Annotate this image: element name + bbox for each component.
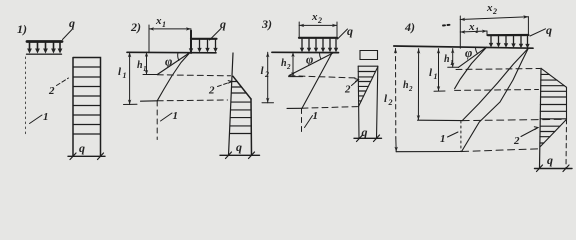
angle phi label	[465, 46, 472, 60]
svg-text:x: x	[311, 11, 318, 23]
label q at diagram bottom	[236, 140, 242, 154]
dashed level line at l1 depth	[455, 89, 539, 92]
distributed load q	[299, 37, 337, 39]
diagram hatching	[230, 82, 251, 134]
svg-text:2: 2	[48, 85, 55, 97]
angle phi label	[306, 53, 313, 67]
phi line from load near edge	[458, 47, 486, 67]
dimension h2	[281, 58, 291, 71]
45 deg line from load near edge	[455, 47, 487, 88]
dimension x2	[311, 11, 322, 25]
label 1 with leader	[440, 133, 446, 145]
phi line from load far edge	[462, 48, 528, 120]
dimension l1	[429, 67, 438, 81]
level line at l2 depth (solid then dashed)	[396, 151, 461, 153]
dashed level line at h1 depth	[157, 75, 230, 76]
label 2)	[130, 20, 141, 34]
dimension x1	[468, 21, 479, 35]
svg-text:1: 1	[434, 72, 438, 81]
dimension l2	[261, 65, 270, 79]
level line at h2 depth (solid then dashed)	[418, 119, 463, 121]
svg-text:2: 2	[264, 70, 269, 79]
svg-text:q: q	[347, 24, 353, 38]
label q with leader	[546, 23, 552, 37]
svg-text:1: 1	[475, 26, 479, 35]
small top box of pressure diagram	[360, 51, 378, 60]
label 2 with dashed leader	[48, 85, 55, 97]
diagram base line with ticks	[68, 155, 105, 157]
distributed load q (bar with down arrows)	[27, 40, 62, 43]
dashed level line at h2 depth	[289, 76, 358, 78]
label 2 with dashed leader	[208, 85, 215, 97]
diagram axis (left edge)	[357, 66, 360, 138]
distributed load q	[488, 34, 528, 36]
label 2 with leader	[513, 135, 520, 147]
ground line	[272, 51, 339, 53]
dashed level line at h1 depth	[456, 69, 540, 70]
label 1 with leader	[173, 110, 179, 122]
label q at diagram bottom	[79, 141, 85, 155]
pressure diagram axis	[229, 53, 234, 155]
label 1 with leader	[313, 110, 319, 122]
distributed load q	[190, 31, 192, 54]
dashed wall line below junction	[301, 109, 303, 133]
label 2 with leader	[344, 84, 351, 96]
phi line from load edge	[157, 53, 190, 75]
angle arc	[476, 47, 478, 53]
angle phi label	[165, 55, 172, 69]
level line at l1 depth (solid then dashed)	[141, 100, 158, 102]
phi line from load far edge	[289, 53, 333, 76]
svg-text:2: 2	[492, 7, 497, 16]
diagram top slant	[541, 68, 567, 87]
svg-text:x: x	[155, 15, 162, 27]
diagram right edge solid part	[566, 87, 568, 119]
svg-text:x: x	[486, 2, 493, 14]
diagram slant edge	[233, 76, 251, 99]
ground line	[127, 51, 216, 54]
label q at diagram bottom	[547, 153, 553, 167]
svg-text:q: q	[236, 140, 242, 154]
svg-text:1: 1	[123, 71, 127, 80]
svg-text:1: 1	[440, 133, 446, 145]
dashed wall line below junction	[156, 101, 158, 140]
svg-text:q: q	[79, 141, 85, 155]
diagram hatching	[540, 74, 567, 143]
dotted wall line below junction	[460, 121, 462, 151]
svg-text:1: 1	[173, 110, 179, 122]
baseline under load	[27, 53, 62, 55]
diagram base line with ticks	[220, 154, 260, 156]
diagram hatching	[358, 72, 375, 101]
svg-text:2: 2	[408, 85, 413, 93]
paper background	[0, 0, 576, 177]
diagram right edge	[377, 66, 378, 138]
label q with leader	[347, 24, 353, 38]
svg-text:q: q	[362, 125, 368, 139]
level line at lower depth (solid then dashed)	[287, 107, 302, 109]
svg-text:3): 3)	[261, 17, 272, 31]
diagram lower slant	[540, 119, 567, 146]
dimension l1	[118, 66, 127, 80]
dimension h1	[444, 54, 454, 67]
label q at diagram bottom	[362, 125, 368, 139]
svg-text:q: q	[546, 23, 552, 37]
dimension h2	[403, 80, 413, 93]
label 4)	[404, 20, 415, 34]
svg-text:4): 4)	[404, 20, 415, 34]
svg-text:1: 1	[43, 111, 49, 123]
dimension x1	[155, 15, 166, 29]
pressure diagram axis	[540, 68, 542, 168]
label q with leader	[69, 16, 75, 30]
dimension x2	[486, 2, 497, 16]
svg-text:2: 2	[286, 63, 291, 71]
label 1)	[17, 22, 27, 36]
svg-text:2: 2	[344, 84, 351, 96]
svg-text:2): 2)	[130, 20, 141, 34]
steep line from load far edge	[302, 53, 332, 108]
hatch lines	[73, 67, 101, 134]
45 deg line from load edge	[157, 53, 190, 101]
label 1 with leader	[43, 111, 49, 123]
diagram right edge dashed part	[565, 119, 568, 168]
diagram base line with ticks	[535, 168, 573, 170]
svg-text:q: q	[69, 16, 75, 30]
pressure diagram (triangle) top edge	[358, 65, 378, 67]
dimension h1	[137, 60, 147, 73]
label 3)	[261, 17, 272, 31]
svg-text:1): 1)	[17, 22, 27, 36]
svg-text:2: 2	[208, 85, 215, 97]
svg-text:1: 1	[162, 20, 166, 29]
diagram right edge	[250, 99, 253, 155]
diagram base line with ticks	[354, 137, 382, 139]
stray double dot mark	[443, 24, 450, 27]
svg-text:2: 2	[388, 98, 393, 107]
wall axis line 1 (dotted vertical)	[25, 57, 27, 137]
45 deg line from load far edge	[462, 48, 529, 151]
svg-text:2: 2	[513, 135, 520, 147]
label q with leader	[220, 17, 226, 31]
dimension l2 (dashed vertical)	[384, 93, 393, 107]
ground line	[394, 46, 533, 48]
svg-text:2: 2	[317, 16, 322, 25]
angle arc	[178, 53, 179, 61]
pressure diagram (hatched rectangle)	[73, 58, 101, 157]
svg-text:1: 1	[313, 110, 319, 122]
svg-text:q: q	[547, 153, 553, 167]
diagram diagonal	[358, 67, 377, 107]
angle arc	[319, 53, 320, 59]
